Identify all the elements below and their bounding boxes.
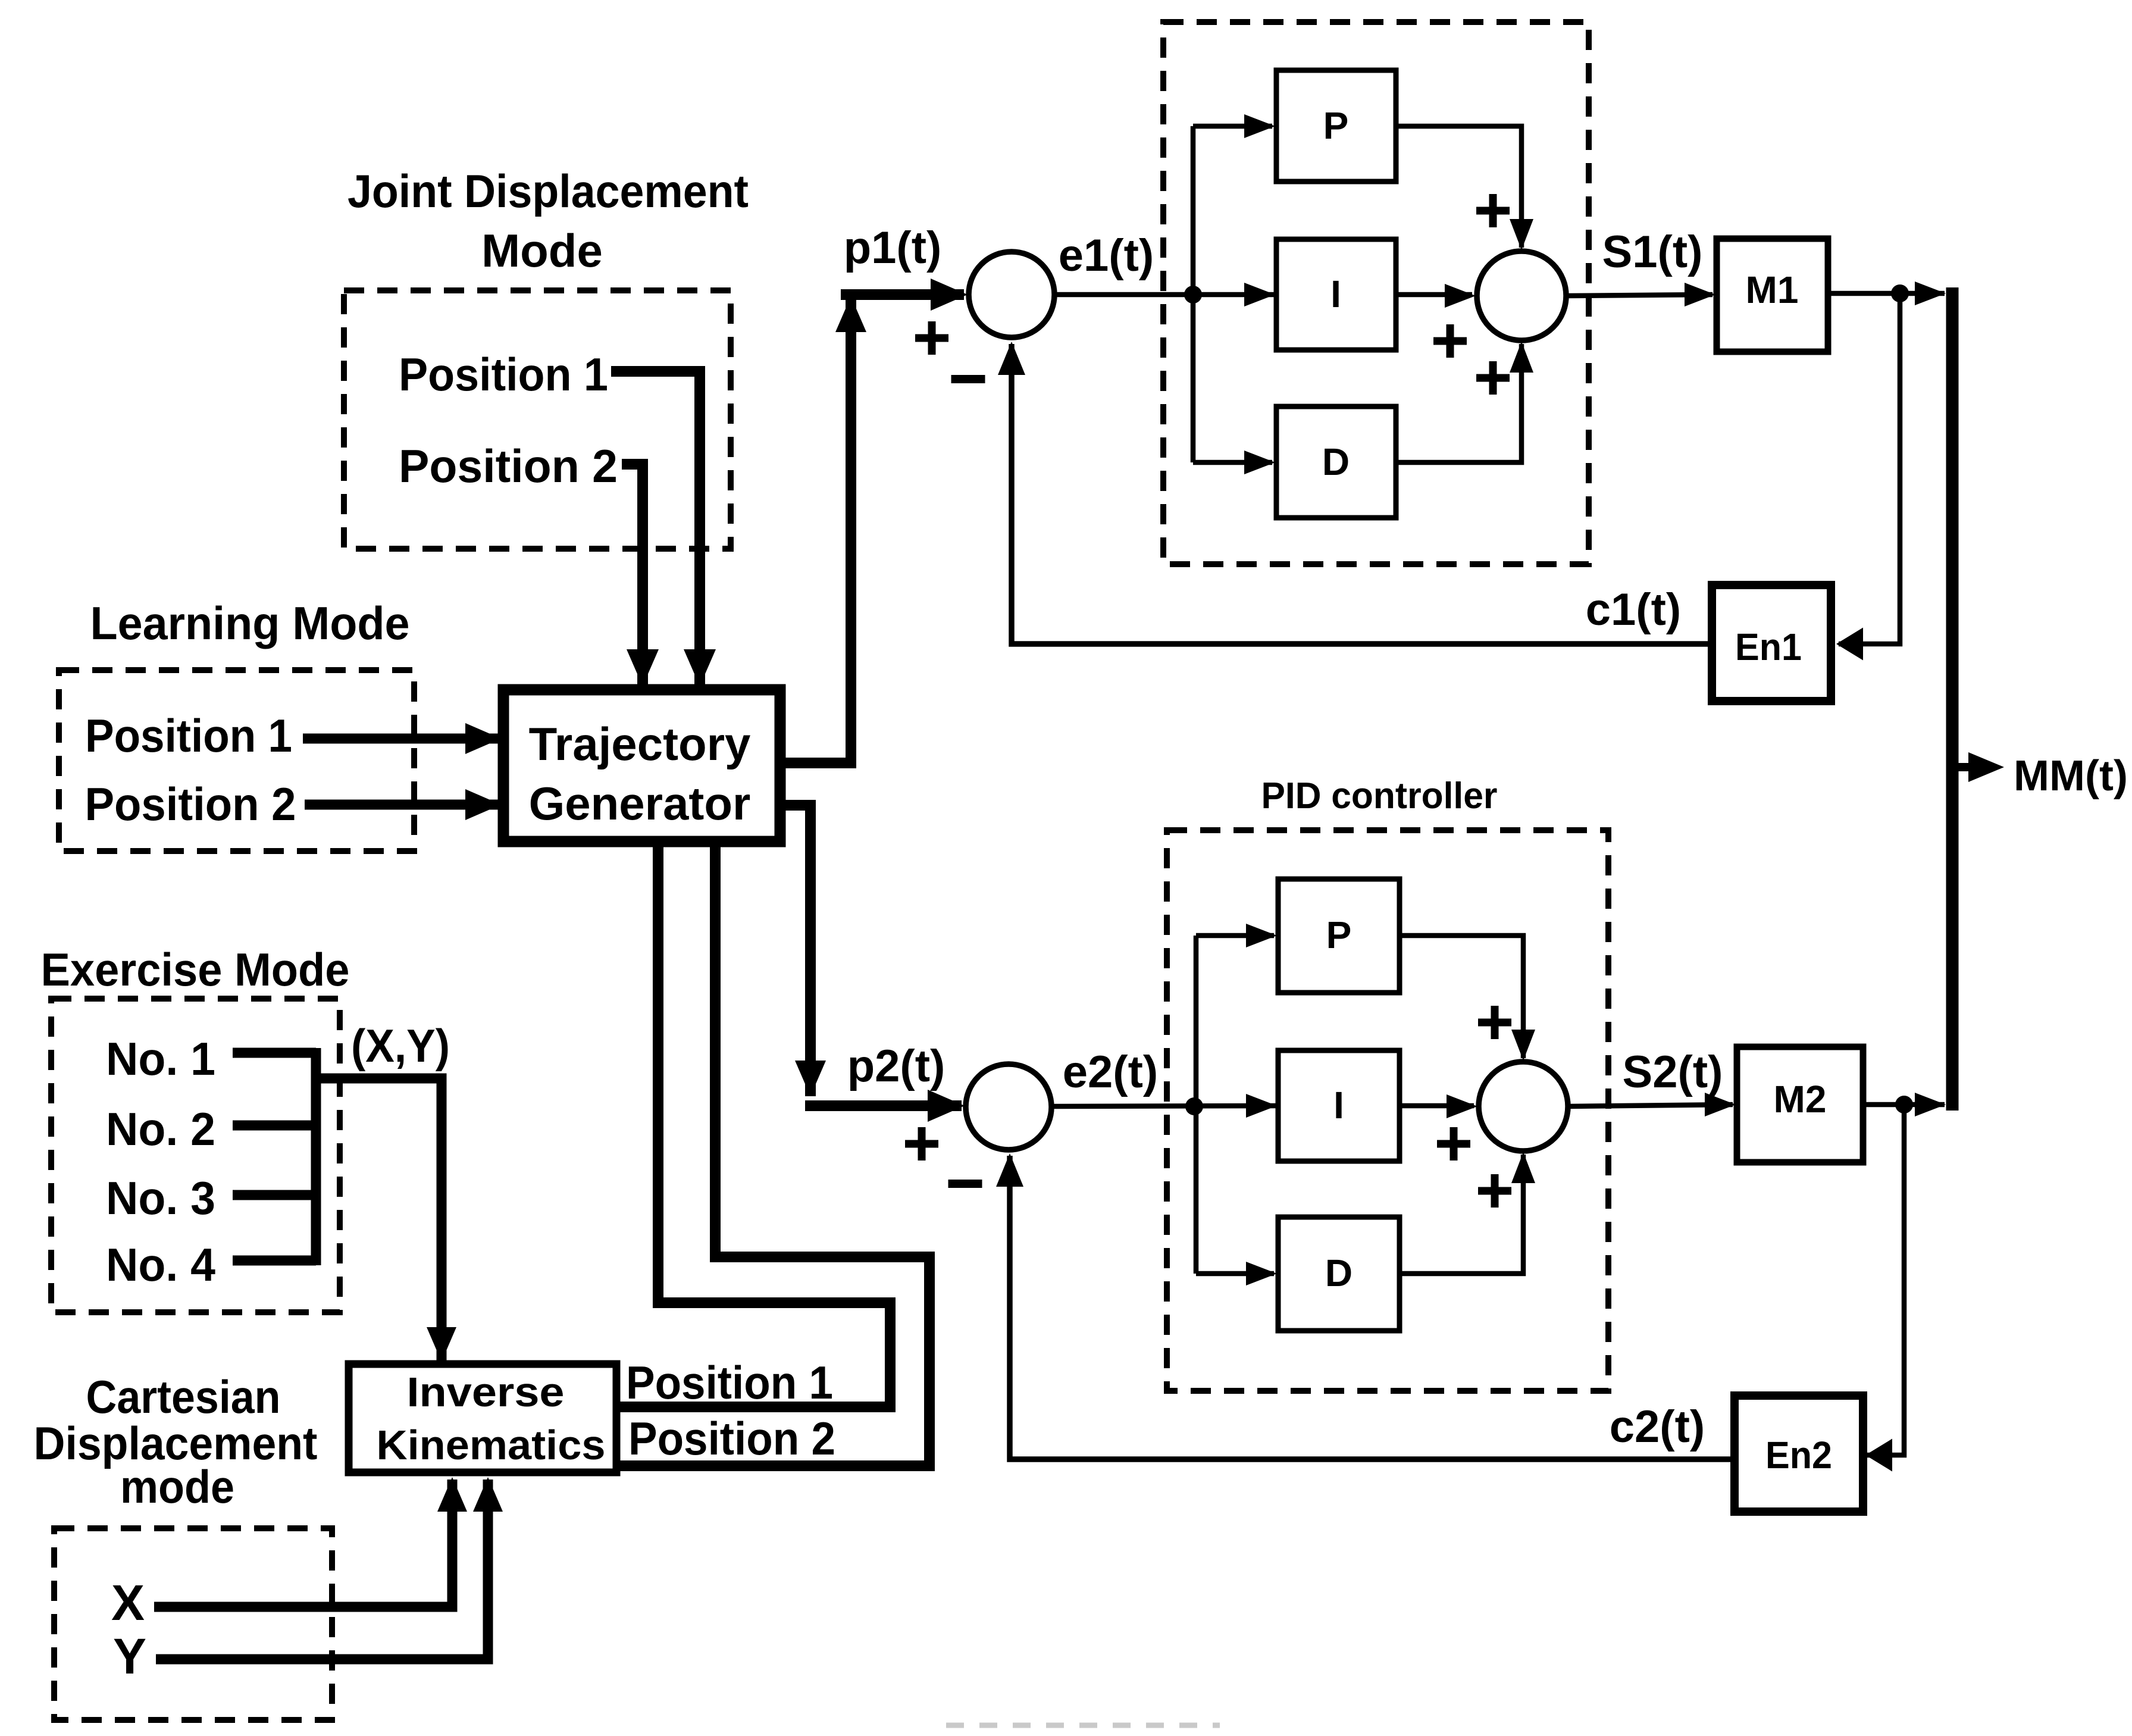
svg-text:p2(t): p2(t): [847, 1041, 946, 1091]
svg-text:No. 2: No. 2: [106, 1103, 215, 1155]
svg-text:Position 1: Position 1: [626, 1356, 833, 1409]
svg-text:MM(t): MM(t): [2014, 752, 2128, 800]
svg-text:Exercise Mode: Exercise Mode: [41, 943, 350, 996]
svg-text:e2(t): e2(t): [1063, 1047, 1158, 1097]
svg-text:Trajectory: Trajectory: [529, 718, 751, 770]
svg-text:Position 1: Position 1: [85, 709, 292, 762]
svg-text:Position 2: Position 2: [85, 778, 296, 830]
svg-text:I: I: [1330, 273, 1341, 315]
svg-text:X: X: [111, 1575, 145, 1631]
svg-text:PID controller: PID controller: [1261, 775, 1498, 817]
svg-text:p1(t): p1(t): [844, 223, 942, 273]
svg-text:Joint Displacement: Joint Displacement: [347, 165, 749, 217]
svg-text:M2: M2: [1774, 1078, 1827, 1121]
svg-text:En1: En1: [1735, 625, 1802, 668]
svg-text:Generator: Generator: [529, 777, 751, 830]
svg-text:Y: Y: [113, 1628, 146, 1684]
svg-text:No. 3: No. 3: [106, 1172, 215, 1224]
svg-text:D: D: [1322, 440, 1350, 483]
svg-text:Position 1: Position 1: [399, 348, 608, 401]
svg-text:Kinematics: Kinematics: [377, 1422, 606, 1468]
svg-text:No. 4: No. 4: [106, 1238, 215, 1291]
svg-text:P: P: [1326, 914, 1352, 956]
svg-text:mode: mode: [120, 1460, 234, 1513]
svg-text:I: I: [1333, 1084, 1344, 1127]
svg-text:Position 2: Position 2: [399, 440, 618, 492]
svg-text:En2: En2: [1765, 1434, 1832, 1477]
svg-text:S1(t): S1(t): [1602, 227, 1703, 277]
svg-text:D: D: [1325, 1252, 1353, 1294]
svg-text:c2(t): c2(t): [1610, 1402, 1705, 1452]
svg-text:No. 1: No. 1: [106, 1033, 215, 1085]
svg-text:e1(t): e1(t): [1059, 230, 1154, 281]
svg-text:Inverse: Inverse: [407, 1369, 565, 1415]
svg-text:Mode: Mode: [481, 224, 603, 277]
svg-text:P: P: [1323, 104, 1349, 147]
svg-text:M1: M1: [1746, 268, 1799, 311]
svg-text:Learning Mode: Learning Mode: [90, 597, 410, 649]
svg-text:c1(t): c1(t): [1586, 584, 1681, 635]
svg-text:Cartesian: Cartesian: [86, 1371, 281, 1423]
svg-text:(X,Y): (X,Y): [351, 1019, 450, 1072]
svg-text:S2(t): S2(t): [1623, 1047, 1723, 1097]
svg-text:Position 2: Position 2: [628, 1412, 835, 1465]
